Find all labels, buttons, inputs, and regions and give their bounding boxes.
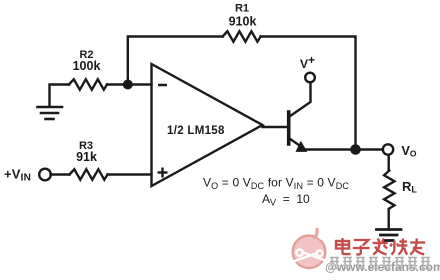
wire R3 to non-inverting input [108, 173, 152, 175]
svg-text:1/2 LM158: 1/2 LM158 [167, 125, 225, 137]
svg-text:910k: 910k [229, 15, 257, 29]
wire RL to ground [388, 209, 390, 228]
svg-text:VO = 0 VDC for VIN = 0 VDC: VO = 0 VDC for VIN = 0 VDC [203, 176, 349, 192]
svg-text:RL: RL [402, 179, 417, 195]
resistor RL vertical [384, 171, 394, 209]
svg-text:V+: V+ [300, 53, 315, 71]
transistor Q1 collector [290, 83, 311, 117]
wire opamp output to transistor base [263, 126, 288, 128]
watermark tagline overlay (gray chinese marks) [330, 258, 430, 269]
glyph 友 [410, 239, 425, 255]
terminal +VIN circle [39, 169, 51, 181]
wire Vo to RL [388, 155, 390, 171]
transistor Q1 emitter [290, 139, 304, 149]
glyph 烧 [390, 239, 407, 255]
terminal Vo circle [383, 144, 393, 154]
op-amp U1 triangle [152, 64, 263, 186]
watermark logo [292, 227, 330, 268]
svg-text:91k: 91k [76, 150, 97, 164]
resistor R2 [69, 79, 107, 89]
svg-text:100k: 100k [73, 59, 101, 73]
node A junction dot [123, 80, 133, 90]
resistor R1 [223, 31, 261, 41]
wire top feedback left vertical [128, 37, 223, 85]
wire top feedback right + vertical down [261, 37, 356, 150]
terminal V+ circle [305, 73, 315, 83]
glyph 子 [353, 240, 370, 255]
wire R2 to inverting input [107, 83, 152, 85]
svg-text:R1: R1 [235, 3, 249, 15]
watermark text 电子发烧友 (drawn as vector strokes) [336, 238, 425, 255]
svg-text:AV = 10: AV = 10 [262, 192, 310, 208]
resistor R3 [70, 169, 108, 179]
glyph 发 [373, 239, 388, 255]
wire R2 to ground [50, 85, 70, 106]
node B output junction dot [350, 144, 361, 155]
svg-text:+VIN: +VIN [4, 167, 31, 184]
opamp minus input sign [158, 84, 167, 87]
ground (left) [38, 107, 63, 119]
wire emitter to output node [303, 148, 383, 150]
ground (right, under RL) [377, 230, 402, 241]
equation text [203, 176, 349, 208]
opamp plus input sign [158, 168, 168, 178]
emitter arrow [296, 141, 308, 152]
transistor Q1 base bar [287, 112, 291, 144]
wire VIN to R3 [51, 173, 70, 175]
svg-text:@www.elecfans.com: @www.elecfans.com [325, 260, 440, 274]
glyph 电 [336, 238, 351, 254]
svg-text:VO: VO [402, 144, 417, 159]
